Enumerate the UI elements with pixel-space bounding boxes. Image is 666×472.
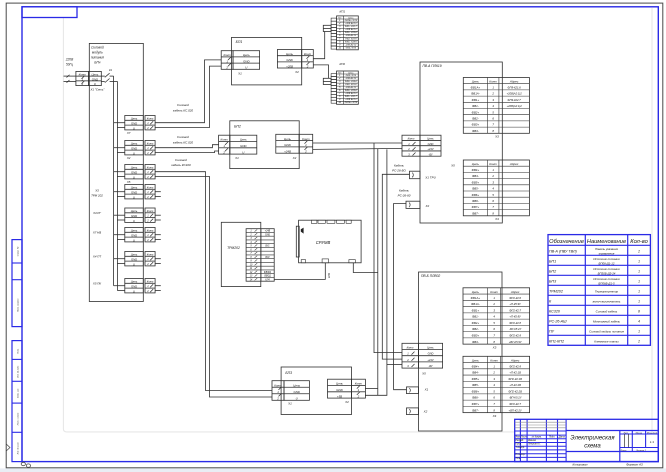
svg-text:X2: X2 bbox=[344, 400, 349, 404]
wire BP2 X2 to PVA X5 row2 bbox=[313, 148, 402, 149]
BP3 connector X2 bbox=[328, 379, 352, 398]
svg-text:ФВ6+: ФВ6+ bbox=[472, 389, 480, 393]
svg-text:ФВ4-: ФВ4- bbox=[472, 174, 479, 178]
svg-text:БП2: БП2 bbox=[234, 124, 241, 128]
svg-text:ФВ6-: ФВ6- bbox=[472, 199, 479, 203]
SRUMV indicator glyph bbox=[301, 228, 304, 234]
svg-text:GND: GND bbox=[428, 352, 434, 356]
svg-text:+П-К5:9У: +П-К5:9У bbox=[509, 315, 521, 319]
svg-text:ТРМ 202: ТРМ 202 bbox=[91, 194, 103, 198]
svg-text:+20В А2:12: +20В А2:12 bbox=[345, 92, 357, 95]
svg-text:ФВ4+: ФВ4+ bbox=[472, 364, 480, 368]
svg-text:4: 4 bbox=[638, 319, 640, 323]
power supply BP2 block bbox=[230, 121, 299, 169]
svg-text:БП1: БП1 bbox=[236, 40, 243, 44]
left margin graphs group 2 bbox=[12, 341, 22, 462]
svg-text:Цепь: Цепь bbox=[427, 137, 434, 141]
svg-text:X5: X5 bbox=[126, 180, 131, 184]
svg-text:+20В А2:12: +20В А2:12 bbox=[345, 28, 357, 31]
svg-text:X2: X2 bbox=[126, 156, 131, 160]
PVA cable plug X1 bbox=[410, 171, 421, 179]
svg-text:2: 2 bbox=[492, 371, 495, 375]
PVB connector X5 bbox=[402, 343, 443, 368]
svg-text:ПУ: ПУ bbox=[549, 330, 555, 334]
svg-text:Монтажный кабель: Монтажный кабель bbox=[593, 319, 620, 323]
svg-text:-20В А2:12: -20В А2:12 bbox=[345, 34, 357, 37]
svg-text:ФП2-К2:7: ФП2-К2:7 bbox=[509, 308, 521, 312]
svg-text:Адрес: Адрес bbox=[510, 290, 520, 294]
svg-text:кабель КС320: кабель КС320 bbox=[171, 163, 191, 167]
svg-text:ФВ2+ К23:6: ФВ2+ К23:6 bbox=[345, 89, 358, 92]
svg-text:БПч: БПч bbox=[94, 61, 100, 65]
svg-text:Цепь: Цепь bbox=[286, 52, 293, 56]
svg-text:ПВ-А ПЛК19: ПВ-А ПЛК19 bbox=[423, 64, 442, 68]
svg-text:Кабель: Кабель bbox=[394, 163, 404, 167]
svg-text:+20В: +20В bbox=[286, 64, 293, 68]
svg-text:2: 2 bbox=[225, 66, 228, 70]
bus wire v2 to BP3 X2 row1 bbox=[377, 149, 379, 395]
wire group1 to BP1 X1 bbox=[155, 60, 221, 123]
svg-text:GND: GND bbox=[131, 214, 137, 218]
svg-text:БП3: БП3 bbox=[285, 371, 292, 375]
svg-text:-20В А2:12: -20В А2:12 bbox=[345, 43, 357, 46]
bus wire v5 plug to plug bbox=[394, 204, 407, 390]
panel PV-B PLV02 block bbox=[419, 272, 503, 431]
svg-text:Подп.: Подп. bbox=[17, 348, 20, 354]
svg-text:СРУМВ: СРУМВ bbox=[316, 240, 331, 245]
svg-text:+20В(А2:1)2: +20В(А2:1)2 bbox=[507, 92, 523, 96]
svg-text:X4: X4 bbox=[494, 217, 499, 221]
svg-text:Конт: Конт bbox=[355, 382, 363, 386]
svg-text:ФВ2+: ФВ2+ bbox=[472, 321, 480, 325]
svg-text:ФВ1+: ФВ1+ bbox=[472, 308, 480, 312]
svg-text:ФВ2- К23:8: ФВ2- К23:8 bbox=[345, 37, 357, 40]
svg-text:Перв. примен.: Перв. примен. bbox=[18, 298, 20, 312]
SRUMV left bracket bbox=[296, 226, 299, 257]
svg-text:Силовой кабель: Силовой кабель bbox=[596, 309, 618, 313]
svg-text:1: 1 bbox=[638, 289, 640, 293]
svg-text:X2: X2 bbox=[292, 156, 297, 160]
svg-text:Цепь: Цепь bbox=[472, 358, 480, 362]
svg-text:БП06-Д1-12: БП06-Д1-12 bbox=[599, 261, 615, 265]
svg-text:ФП2-К2:7: ФП2-К2:7 bbox=[509, 402, 521, 406]
svg-text:+ВП-К2:2У: +ВП-К2:2У bbox=[509, 408, 523, 412]
top left corner graph bbox=[22, 7, 77, 18]
svg-text:Адрес: Адрес bbox=[509, 80, 519, 84]
svg-text:-20В А2:12: -20В А2:12 bbox=[345, 86, 357, 89]
svg-text:X5: X5 bbox=[450, 163, 455, 167]
svg-text:-20В А2:12: -20В А2:12 bbox=[345, 77, 357, 80]
connector X group 1 on PU bbox=[125, 116, 144, 130]
svg-text:Конт: Конт bbox=[408, 137, 416, 141]
svg-text:Конт: Конт bbox=[147, 142, 154, 146]
svg-text:GND: GND bbox=[131, 122, 137, 126]
svg-text:2: 2 bbox=[276, 397, 279, 401]
svg-text:ФВ1А-: ФВ1А- bbox=[471, 92, 480, 96]
wire BP2 X2 to PVA X5 row1 bbox=[313, 142, 402, 144]
bus wire v4 to X5 row3 and BP3 X2 row2 bbox=[365, 149, 387, 395]
connector X group 8 on PU bbox=[125, 279, 144, 293]
svg-text:50Гц: 50Гц bbox=[66, 63, 73, 67]
svg-text:Цепь: Цепь bbox=[240, 138, 247, 142]
svg-text:Конт: Конт bbox=[147, 229, 154, 233]
title block right section bbox=[619, 431, 621, 462]
svg-text:+5В: +5В bbox=[337, 394, 342, 398]
svg-text:Конт: Конт bbox=[223, 53, 231, 57]
svg-text:GND: GND bbox=[265, 234, 270, 236]
svg-text:ФВ7-: ФВ7- bbox=[472, 408, 479, 412]
svg-text:2: 2 bbox=[491, 92, 494, 96]
svg-text:Цепь: Цепь bbox=[293, 383, 300, 387]
svg-text:Иванов: Иванов bbox=[528, 440, 537, 442]
bus taps group 3 bbox=[114, 171, 125, 173]
svg-text:+20В(А2:1)2: +20В(А2:1)2 bbox=[507, 104, 523, 108]
power bus wires bbox=[113, 76, 115, 286]
svg-text:ФВ1-: ФВ1- bbox=[472, 104, 479, 108]
svg-text:X1 "Сеть": X1 "Сеть" bbox=[90, 87, 106, 91]
svg-text:Взам. инв.: Взам. инв. bbox=[18, 388, 20, 398]
svg-text:X4 ПТ: X4 ПТ bbox=[92, 255, 101, 259]
svg-text:ФП2-К2:9: ФП2-К2:9 bbox=[509, 364, 521, 368]
wire SRUMV to bus v2 bbox=[353, 263, 378, 273]
svg-text:ФВ3+: ФВ3+ bbox=[472, 334, 480, 338]
bus wire v1 to PVB X5 row1 bbox=[374, 143, 402, 353]
svg-text:№ докум.: № докум. bbox=[532, 435, 542, 438]
svg-text:Кт: Кт bbox=[338, 17, 341, 19]
svg-text:Конт: Конт bbox=[147, 166, 154, 170]
svg-text:ФП9-К21:6: ФП9-К21:6 bbox=[508, 86, 522, 90]
svg-text:GND: GND bbox=[286, 58, 292, 62]
connector X group 6 on PU bbox=[125, 228, 144, 242]
svg-text:Цепь: Цепь bbox=[243, 53, 250, 57]
title block designation cell bbox=[566, 430, 658, 432]
viewport boundary guides bbox=[63, 18, 514, 432]
svg-text:Подп.: Подп. bbox=[549, 435, 555, 438]
svg-text:Обозначение: Обозначение bbox=[549, 239, 584, 245]
svg-text:ФП2-К2:2В: ФП2-К2:2В bbox=[508, 389, 522, 393]
bus taps group 8 bbox=[114, 285, 125, 287]
svg-text:8: 8 bbox=[638, 309, 640, 313]
connector X1 Set input bbox=[76, 71, 89, 85]
svg-text:ФВ4-: ФВ4- bbox=[472, 371, 479, 375]
stub wires group 4 bbox=[155, 191, 161, 193]
svg-text:Адрес: Адрес bbox=[509, 162, 519, 166]
svg-text:X5: X5 bbox=[421, 372, 426, 376]
svg-text:Подп. и дата: Подп. и дата bbox=[17, 412, 20, 425]
svg-text:X2: X2 bbox=[423, 410, 428, 414]
svg-text:X1: X1 bbox=[287, 402, 292, 406]
svg-text:Конт: Конт bbox=[147, 186, 154, 190]
svg-text:КП2: КП2 bbox=[339, 62, 345, 66]
stub wires group 8 bbox=[155, 285, 161, 287]
stub wires group 7 bbox=[155, 258, 161, 260]
connector X group 3 on PU bbox=[125, 165, 144, 179]
svg-text:Цепь: Цепь bbox=[427, 345, 434, 349]
PVA cable plug X2 bbox=[406, 201, 420, 208]
svg-text:Листов 1: Листов 1 bbox=[635, 450, 647, 452]
svg-text:X2: X2 bbox=[294, 70, 299, 74]
svg-text:Силовой: Силовой bbox=[177, 135, 189, 139]
svg-text:ФВ1А+: ФВ1А+ bbox=[471, 296, 481, 300]
svg-text:X4: X4 bbox=[492, 414, 497, 418]
SRUMV bottom pads bbox=[301, 260, 305, 263]
svg-text:ВУ2: ВУ2 bbox=[265, 257, 270, 259]
svg-text:+П-К2:2В: +П-К2:2В bbox=[509, 383, 521, 387]
PVB cable plug X2 bbox=[407, 408, 419, 415]
svg-text:ФВ1+ К22:7: ФВ1+ К22:7 bbox=[345, 95, 358, 98]
svg-text:X1: X1 bbox=[237, 71, 242, 75]
svg-text:2: 2 bbox=[492, 302, 495, 306]
stub wires group 5 bbox=[155, 214, 161, 216]
BP3 connector X1 bbox=[272, 381, 284, 401]
svg-text:Конт: Конт bbox=[490, 358, 498, 362]
svg-text:ФП2-К2:1В: ФП2-К2:1В bbox=[508, 377, 522, 381]
svg-text:управления: управления bbox=[598, 251, 615, 255]
svg-text:GND: GND bbox=[240, 144, 246, 148]
svg-text:БП06Б-Д1-5: БП06Б-Д1-5 bbox=[598, 281, 615, 285]
svg-text:кабель КС.020: кабель КС.020 bbox=[173, 140, 194, 144]
svg-text:2: 2 bbox=[637, 339, 640, 343]
svg-text:Формат А3: Формат А3 bbox=[626, 463, 643, 467]
svg-text:ФВ1А+ ФП9: ФВ1А+ ФП9 bbox=[345, 101, 358, 104]
BP1 connector X2 bbox=[277, 50, 301, 69]
bus wire v3 cable RS-26 to X5 row2 bbox=[382, 174, 409, 359]
svg-text:ТРМ202: ТРМ202 bbox=[227, 246, 240, 250]
svg-text:GND: GND bbox=[284, 143, 290, 147]
svg-text:БП1: БП1 bbox=[549, 260, 556, 264]
svg-text:ФВ1+: ФВ1+ bbox=[472, 98, 480, 102]
svg-text:1:1: 1:1 bbox=[650, 440, 655, 444]
svg-text:Инв. № подл.: Инв. № подл. bbox=[17, 441, 20, 454]
svg-text:ФВ3+ К24:6: ФВ3+ К24:6 bbox=[345, 80, 358, 83]
svg-text:2: 2 bbox=[304, 149, 307, 153]
svg-text:РС-26-60: РС-26-60 bbox=[398, 193, 411, 197]
punch hole marks bbox=[21, 462, 25, 465]
svg-text:Цепь: Цепь bbox=[472, 162, 480, 166]
svg-text:Силовой: Силовой bbox=[175, 158, 187, 162]
svg-text:ФВ7+: ФВ7+ bbox=[472, 402, 480, 406]
svg-text:ФВ3-: ФВ3- bbox=[472, 129, 479, 133]
lit cell dividers bbox=[624, 434, 626, 448]
BP1 connector X1 bbox=[221, 51, 233, 70]
svg-text:ФВ2- К23:8: ФВ2- К23:8 bbox=[345, 83, 357, 86]
svg-text:ФВ1-: ФВ1- bbox=[472, 315, 479, 319]
svg-text:КС320: КС320 bbox=[549, 310, 561, 314]
svg-text:Разраб.: Разраб. bbox=[516, 440, 525, 442]
svg-text:Дата: Дата bbox=[558, 436, 566, 438]
svg-text:Конт: Конт bbox=[304, 52, 312, 56]
svg-text:ФВ6+: ФВ6+ bbox=[472, 193, 480, 197]
svg-text:БП2: БП2 bbox=[549, 270, 556, 274]
svg-text:Цепь: Цепь bbox=[131, 209, 138, 213]
svg-text:-БУ: -БУ bbox=[428, 152, 432, 156]
wire mains input bbox=[64, 75, 76, 77]
svg-text:Копировал: Копировал bbox=[573, 463, 588, 467]
svg-text:ФВ3-: ФВ3- bbox=[472, 340, 479, 344]
svg-text:ФВ3+: ФВ3+ bbox=[472, 123, 480, 127]
svg-text:GND: GND bbox=[131, 285, 137, 289]
svg-text:ФВ7-: ФВ7- bbox=[472, 211, 479, 215]
TRM202 pin table bbox=[246, 229, 274, 282]
svg-text:Наименование: Наименование bbox=[587, 239, 626, 245]
svg-text:ФВ1А-: ФВ1А- bbox=[471, 302, 480, 306]
bus taps group 4 bbox=[114, 191, 125, 193]
svg-text:Конт: Конт bbox=[79, 73, 87, 77]
panel PV-A PLK19 block bbox=[420, 62, 502, 223]
svg-text:Цепь: Цепь bbox=[131, 253, 138, 257]
power module PU block bbox=[89, 43, 143, 301]
svg-text:+ВУ-К5:9У: +ВУ-К5:9У bbox=[509, 340, 522, 344]
svg-text:Изм: Изм bbox=[515, 436, 520, 438]
svg-text:Пров.: Пров. bbox=[516, 444, 522, 446]
svg-text:X7: X7 bbox=[126, 131, 131, 135]
svg-text:X1: X1 bbox=[234, 156, 239, 160]
svg-text:ФВ6-: ФВ6- bbox=[472, 396, 479, 400]
svg-text:X2: X2 bbox=[425, 204, 430, 208]
svg-text:Конт: Конт bbox=[147, 253, 154, 257]
connector X group 7 on PU bbox=[125, 252, 144, 266]
svg-text:+24V: +24V bbox=[427, 147, 433, 151]
PVA connector X5 bbox=[402, 135, 441, 156]
PVB table X3 bbox=[463, 288, 530, 344]
svg-text:БП3: БП3 bbox=[549, 280, 557, 284]
power supply BP3 block bbox=[281, 367, 351, 415]
svg-text:GND: GND bbox=[131, 258, 137, 262]
stub wires group 6 bbox=[155, 234, 161, 236]
svg-text:X1 ТРU: X1 ТРU bbox=[424, 176, 436, 180]
svg-text:схема: схема bbox=[584, 444, 601, 450]
svg-text:ПВ-Б ПЛВ02: ПВ-Б ПЛВ02 bbox=[421, 274, 440, 278]
controller TRM202 block bbox=[221, 222, 260, 286]
svg-text:Лист: Лист bbox=[620, 450, 627, 452]
svg-text:220В: 220В bbox=[65, 58, 74, 62]
svg-text:ФВ1А+: ФВ1А+ bbox=[471, 86, 481, 90]
svg-text:GND: GND bbox=[293, 390, 299, 394]
svg-text:ФВ5-: ФВ5- bbox=[472, 187, 479, 191]
svg-text:Цепь: Цепь bbox=[472, 80, 480, 84]
svg-text:КП1: КП1 bbox=[339, 10, 345, 14]
svg-text:РС-26-АШ: РС-26-АШ bbox=[549, 320, 567, 324]
svg-text:X4 РГ: X4 РГ bbox=[92, 211, 101, 215]
svg-text:ФВ3- ФП9: ФВ3- ФП9 bbox=[346, 47, 357, 50]
svg-text:ВВОД: ВВОД bbox=[264, 276, 271, 278]
svg-text:1: 1 bbox=[638, 329, 640, 333]
svg-text:ФП2-К2:9: ФП2-К2:9 bbox=[509, 334, 521, 338]
svg-text:GND: GND bbox=[131, 171, 137, 175]
svg-text:ФВ2-: ФВ2- bbox=[472, 117, 479, 121]
svg-text:Цепь: Цепь bbox=[284, 137, 291, 141]
svg-text:Цепь: Цепь bbox=[336, 382, 343, 386]
svg-text:+20В А2:12: +20В А2:12 bbox=[345, 22, 357, 25]
svg-text:Лист: Лист bbox=[520, 436, 527, 438]
connector X group 4 on PU bbox=[125, 185, 144, 199]
svg-text:Конт: Конт bbox=[489, 162, 497, 166]
svg-text:КЛ4: КЛ4 bbox=[327, 273, 331, 278]
wire SRUMV to TRM202 bbox=[274, 263, 325, 280]
parts list table bbox=[548, 235, 650, 346]
svg-text:ФВ7+: ФВ7+ bbox=[472, 205, 480, 209]
svg-text:-ВУ-К5:2У: -ВУ-К5:2У bbox=[509, 327, 521, 331]
svg-text:2: 2 bbox=[491, 174, 494, 178]
svg-text:питания: питания bbox=[91, 56, 104, 60]
svg-text:ВУ1: ВУ1 bbox=[265, 246, 270, 248]
svg-text:-БУ: -БУ bbox=[428, 364, 432, 368]
svg-text:+П-К5:9У: +П-К5:9У bbox=[509, 302, 521, 306]
svg-text:+24В: +24В bbox=[265, 230, 271, 233]
bus taps group 2 bbox=[114, 147, 125, 149]
svg-text:Цепь: Цепь bbox=[131, 117, 138, 121]
svg-text:Кт: Кт bbox=[338, 72, 341, 74]
svg-text:+П-К2:1В: +П-К2:1В bbox=[509, 371, 521, 375]
svg-text:+24V: +24V bbox=[427, 358, 433, 362]
svg-text:ФВ5+: ФВ5+ bbox=[472, 180, 480, 184]
svg-text:Цепь: Цепь bbox=[131, 229, 138, 233]
svg-text:Силовой: Силовой bbox=[91, 46, 104, 50]
connector X group 5 on PU bbox=[125, 208, 144, 222]
svg-text:Справ. №: Справ. № bbox=[17, 246, 20, 256]
svg-text:Н.контр.: Н.контр. bbox=[516, 454, 526, 456]
svg-text:Конт: Конт bbox=[302, 137, 310, 141]
svg-text:X7 НВ: X7 НВ bbox=[92, 231, 101, 235]
wire group2 to BP2 X1 bbox=[155, 145, 219, 148]
PVA table X4 bbox=[463, 160, 529, 216]
svg-text:ФВ2-: ФВ2- bbox=[472, 327, 479, 331]
svg-text:X3: X3 bbox=[94, 189, 99, 193]
svg-text:Т.контр.: Т.контр. bbox=[516, 447, 526, 449]
svg-text:включ-выключатель: включ-выключатель bbox=[593, 299, 621, 303]
svg-text:GND: GND bbox=[131, 234, 137, 238]
BP2 connector X1 bbox=[219, 135, 230, 154]
svg-text:Лит.: Лит. bbox=[622, 432, 629, 434]
wire BP1 X2 to KP1 bbox=[313, 32, 324, 59]
PVB table X4 bbox=[463, 356, 530, 412]
title block bbox=[515, 419, 659, 461]
svg-text:-ВП-К5:2У: -ВП-К5:2У bbox=[509, 396, 522, 400]
wire BP1 X2 to KP2 bbox=[313, 65, 328, 78]
svg-text:Цепь: Цепь bbox=[348, 17, 354, 19]
svg-text:ФП2-К2:8: ФП2-К2:8 bbox=[509, 321, 521, 325]
bus taps group 6 bbox=[114, 234, 125, 236]
svg-text:ФВ5+: ФВ5+ bbox=[472, 377, 480, 381]
svg-text:GND: GND bbox=[131, 147, 137, 151]
svg-text:Кабель: Кабель bbox=[399, 188, 409, 192]
svg-text:X5 ПК: X5 ПК bbox=[92, 282, 101, 286]
svg-text:+24В: +24В bbox=[284, 149, 291, 153]
svg-text:Кол-во: Кол-во bbox=[630, 239, 648, 245]
svg-text:1: 1 bbox=[638, 259, 640, 263]
svg-text:Цепь: Цепь bbox=[131, 186, 138, 190]
svg-text:GND: GND bbox=[336, 388, 342, 392]
svg-text:Электрическая: Электрическая bbox=[570, 435, 615, 441]
svg-text:Силовой: Силовой bbox=[177, 103, 189, 107]
svg-text:GND: GND bbox=[131, 191, 137, 195]
svg-text:X3: X3 bbox=[494, 135, 499, 139]
svg-text:Масса: Масса bbox=[636, 432, 643, 434]
svg-text:Цепь: Цепь bbox=[92, 73, 99, 77]
svg-text:ФВ4+: ФВ4+ bbox=[472, 168, 480, 172]
svg-text:Клеммные платы: Клеммные платы bbox=[594, 339, 619, 343]
svg-text:2: 2 bbox=[637, 249, 640, 253]
svg-text:GND: GND bbox=[243, 59, 249, 63]
svg-text:Конт: Конт bbox=[147, 209, 154, 213]
svg-text:+20В А2:12: +20В А2:12 bbox=[345, 98, 357, 101]
svg-text:Цепь: Цепь bbox=[131, 280, 138, 284]
svg-text:GND: GND bbox=[92, 77, 98, 81]
svg-text:Утв.: Утв. bbox=[516, 458, 522, 460]
left margin graphs group 1 bbox=[12, 240, 22, 327]
svg-text:ФВ302: ФВ302 bbox=[264, 271, 272, 274]
svg-text:ФВ5-: ФВ5- bbox=[472, 383, 479, 387]
